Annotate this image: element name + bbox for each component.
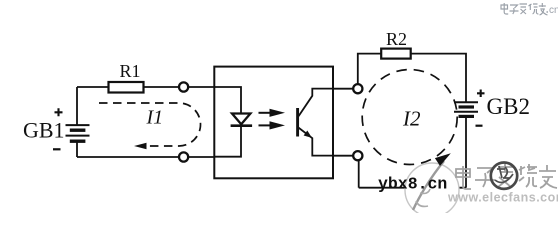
wire left loop bottom segment	[77, 156, 178, 158]
wire top-right terminal up to R2 level	[358, 54, 382, 85]
wire R2 to right edge	[411, 54, 466, 102]
optocoupler box U1	[214, 67, 333, 179]
svg-text:I2: I2	[402, 107, 421, 131]
arrowhead I2 pointing up-right	[435, 153, 451, 166]
watermark gray CJK text (simulated glyphs)	[456, 164, 557, 189]
terminal top-left	[179, 82, 188, 91]
LED cathode bar	[231, 124, 253, 127]
svg-text:www.elecfans.com: www.elecfans.com	[447, 191, 558, 205]
wire stub bottom-left terminal to box	[189, 156, 214, 158]
phototransistor Q1 base bar	[296, 108, 299, 137]
arrowhead I1 pointing left	[134, 143, 147, 150]
minus sign GB1	[53, 148, 61, 150]
wire bottom-right terminal down	[358, 160, 360, 187]
wire left vertical from top corner to battery +	[76, 87, 78, 125]
wire left loop top segment battery to R1	[77, 86, 108, 88]
collector lead	[299, 89, 334, 117]
wire stub box to bottom-right terminal	[333, 155, 353, 157]
svg-text:ybx8.cn: ybx8.cn	[378, 174, 447, 193]
wire battery GB2 bottom to bottom right corner	[465, 116, 467, 187]
terminal top-right	[353, 84, 362, 93]
svg-text:cn: cn	[549, 5, 558, 16]
resistor R1	[109, 82, 144, 93]
watermark swoosh	[413, 161, 444, 210]
svg-text:I1: I1	[146, 107, 164, 129]
watermark top-right CJK text (simulated glyphs)	[501, 3, 548, 15]
svg-text:GB2: GB2	[487, 94, 530, 119]
dashed current loop I2	[362, 70, 457, 165]
plus sign GB1	[55, 108, 63, 116]
emitter lead	[299, 128, 334, 156]
wire stub top-left terminal to box	[189, 86, 214, 88]
plus sign GB2	[477, 90, 485, 98]
LED diode	[232, 114, 250, 125]
resistor R2	[381, 49, 411, 59]
dashed current loop I1	[99, 103, 201, 146]
wire R1 to top-left terminal	[144, 86, 179, 88]
wire LED cathode lead	[214, 127, 241, 157]
svg-text:GB1: GB1	[23, 118, 65, 143]
svg-text:R1: R1	[120, 61, 141, 81]
minus sign GB2	[476, 125, 483, 127]
svg-text:R2: R2	[386, 29, 407, 49]
battery GB2	[454, 102, 478, 116]
terminal bottom-right	[353, 151, 362, 160]
wire battery bottom to bottom corner	[76, 141, 78, 157]
watermark stamp circle	[491, 163, 517, 189]
terminal bottom-left	[179, 152, 188, 161]
wire stub box to top-right terminal	[333, 88, 353, 90]
light arrow upper	[259, 112, 271, 114]
watermark white circle logo	[405, 163, 459, 217]
stamp inner marks	[495, 166, 513, 182]
light arrow lower	[259, 124, 271, 126]
wire right loop bottom segment	[359, 187, 466, 189]
battery GB1	[66, 125, 90, 141]
emitter arrowhead	[304, 131, 312, 138]
wire LED anode lead	[214, 87, 241, 113]
